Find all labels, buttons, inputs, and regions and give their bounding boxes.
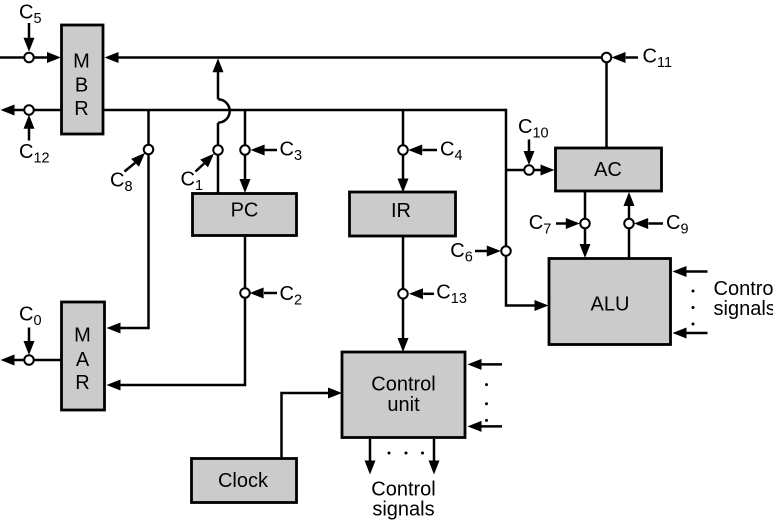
svg-text:C0: C0 [19,304,42,330]
label C3 with arrow [251,138,302,164]
node C7 gate circle [580,219,590,229]
node C2 gate circle [240,288,250,298]
clock [192,459,297,503]
svg-text:PC: PC [231,200,259,222]
svg-text:C3: C3 [280,138,303,164]
wire ALU top to AC bottom (C9 gate) [624,192,635,258]
label Control signals below Control unit [371,479,435,521]
wire top bus left segment into MBR [0,52,61,63]
svg-text:C1: C1 [181,169,204,195]
wire arrow down from Control unit bottom right [429,439,440,475]
svg-text:C10: C10 [518,116,549,142]
label Control signals right of ALU [714,278,773,320]
svg-text:C6: C6 [450,240,473,266]
svg-text:Clock: Clock [218,470,269,492]
svg-text:AC: AC [594,159,622,181]
svg-text:ALU: ALU [591,294,630,316]
wire arrow down from Control unit bottom left [365,439,376,475]
label C0 with arrow [19,304,42,356]
label C5 with arrow [19,2,42,52]
node C4 gate circle [398,145,408,155]
register AC [556,148,662,191]
wire C3 drop from lower bus into PC top [240,110,251,193]
svg-text:signals: signals [714,298,773,320]
svg-text:B: B [75,74,88,96]
label C12 with arrow [19,115,50,167]
svg-text:C5: C5 [19,2,42,28]
node C6 gate circle [501,246,511,256]
wire C8 branch from lower bus to MAR right [107,110,149,334]
node C0 gate circle [24,355,34,365]
svg-text:C11: C11 [643,46,673,72]
control unit [342,352,465,438]
node C12 gate circle [24,105,34,115]
dots right of ALU [692,290,695,326]
svg-text:C13: C13 [436,282,467,308]
node C10 gate circle [524,165,534,175]
label C6 with arrow [450,240,501,266]
node C13 gate circle [398,289,408,299]
svg-text:unit: unit [387,394,420,416]
svg-text:C9: C9 [666,212,689,238]
label C11 with arrow [612,46,673,72]
svg-text:C7: C7 [529,212,552,238]
label C9 with arrow [634,212,688,238]
label C2 with arrow [250,283,302,309]
wire C11 drop to AC top [605,58,608,150]
svg-text:Control: Control [371,374,435,396]
svg-text:C4: C4 [440,139,463,165]
dots below Control unit [388,452,425,455]
wire C1 riser from PC top to top bus with hop [213,58,230,193]
svg-text:Control: Control [371,479,435,501]
node C11 gate circle [602,53,612,63]
svg-text:C12: C12 [19,141,50,167]
wire arrow into Control unit right lower [468,421,503,432]
label C4 with arrow [408,139,462,165]
svg-text:A: A [76,349,90,371]
dots right of Control unit [485,383,488,422]
wire arrow into Control unit right upper [468,359,503,370]
svg-text:IR: IR [391,200,411,222]
label C8 with diagonal arrow [110,153,145,195]
label C13 with arrow [409,282,467,308]
wire MAR out to left edge [1,355,61,366]
node C1 gate circle [213,145,223,155]
svg-text:C2: C2 [280,283,303,309]
svg-text:M: M [73,51,90,73]
wire lower bus from left edge to corner x=506 [1,105,507,116]
wire top bus right segment from C11 node into MBR [105,52,607,63]
svg-text:M: M [74,325,91,347]
label C1 with diagonal arrow [181,154,215,194]
node C5 gate circle [24,53,34,63]
node C8 gate circle [144,145,154,155]
svg-text:R: R [74,98,88,120]
register MAR [62,302,105,410]
node C3 gate circle [240,145,250,155]
svg-text:signals: signals [372,499,434,521]
wire PC bottom to MAR right (C2 gate) [107,237,246,391]
wire Clock to Control unit left [282,388,343,459]
svg-text:C8: C8 [110,170,133,196]
register MBR [62,25,104,134]
ALU [549,259,671,345]
svg-text:R: R [75,372,89,394]
wire AC bottom to ALU top (C7 gate) [580,192,591,258]
wire C4 drop from lower bus into IR top [398,110,409,193]
node C9 gate circle [624,219,634,229]
wire arrow into ALU right lower [673,328,708,339]
wire bus corner down x=506 to ALU left [506,109,549,311]
register PC [193,194,297,236]
label C10 with arrow [518,116,549,165]
label C7 with arrow [529,212,580,238]
wire branch into AC left (C10 gate) [506,165,555,176]
wire arrow into ALU right upper [673,266,708,277]
register IR [350,192,456,236]
wire IR bottom to Control unit top (C13 gate) [398,237,409,353]
svg-text:Control: Control [714,278,773,300]
